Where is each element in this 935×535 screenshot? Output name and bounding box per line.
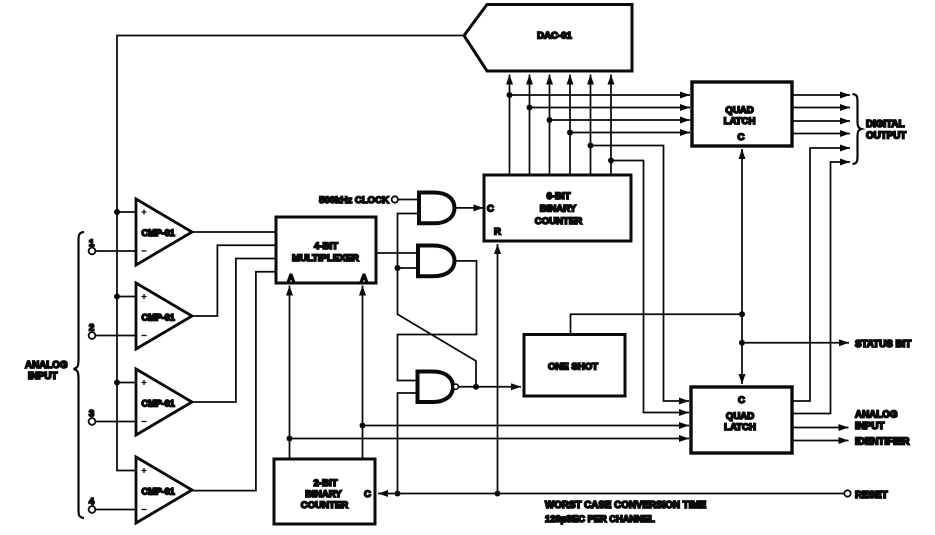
wire STATUS BIT (742, 342, 849, 344)
svg-text:RESET: RESET (855, 490, 888, 501)
node bit4 / wire to quad latch 1 (567, 130, 690, 136)
svg-text:C: C (738, 132, 745, 143)
brace ANALOG INPUT (25, 232, 84, 518)
comparator U2 CMP-01 #1 (136, 199, 192, 265)
latch U9 QUAD LATCH (bottom) (691, 387, 792, 453)
wire counter bit1 to DAC (509, 75, 511, 176)
comparator U4 CMP-01 #3 (136, 369, 192, 435)
comparator U3 CMP-01 #2 (136, 283, 192, 349)
wire MUX output to G2 input (376, 252, 418, 254)
counter U11 2-BIT BINARY COUNTER (274, 459, 375, 524)
DAC U1 DAC-01 (464, 5, 632, 72)
node bit6 / wire to quad latch 2 in2 (608, 158, 689, 413)
svg-text:CMP-01: CMP-01 (142, 313, 175, 323)
svg-text:QUAD: QUAD (726, 411, 754, 422)
wire latch2 out3 ANALOG INPUT (792, 427, 849, 429)
svg-text:BINARY: BINARY (305, 489, 342, 500)
svg-text:6-BIT: 6-BIT (547, 191, 571, 202)
svg-text:QUAD: QUAD (725, 105, 753, 116)
node STATUS BIT junction (739, 340, 745, 346)
wire C line down to latch2 C (741, 314, 743, 384)
node RESET to 6-bit counter R (495, 491, 501, 497)
wire CMP2 output to MUX in2 (192, 245, 276, 316)
node bitA branch / wire to latch2 in4 (287, 436, 690, 442)
wire latch1 out2 (792, 107, 850, 109)
wire CMP4 output to MUX in4 (192, 272, 276, 491)
svg-text:3: 3 (89, 409, 94, 420)
node RESET to G3 (395, 491, 401, 497)
wire counter bit5 to DAC (590, 75, 592, 176)
wire one shot output to C line (571, 314, 743, 334)
svg-text:INPUT: INPUT (28, 371, 57, 382)
wire counter bitA to MUX A (289, 286, 291, 460)
wire CMP1 output to MUX in1 (192, 231, 276, 233)
svg-text:COUNTER: COUNTER (301, 500, 349, 511)
svg-text:2-BIT: 2-BIT (314, 478, 338, 489)
svg-text:2: 2 (89, 323, 94, 334)
svg-text:LATCH: LATCH (724, 422, 756, 433)
svg-text:WORST CASE CONVERSION TIME: WORST CASE CONVERSION TIME (545, 500, 707, 511)
wire latch1 out4 (792, 133, 850, 135)
wire latch1 out3 (792, 120, 850, 122)
multiplexer U6 4-BIT MULTIPLEXER (276, 217, 376, 284)
node G3 output junction (473, 384, 479, 390)
svg-text:LATCH: LATCH (724, 116, 756, 127)
svg-text:DIGITAL: DIGITAL (866, 119, 904, 130)
svg-text:INPUT: INPUT (855, 421, 884, 432)
wire counter bit4 to DAC (569, 75, 571, 176)
svg-text:CMP-01: CMP-01 (142, 228, 175, 238)
terminal 4 (89, 497, 136, 513)
svg-text:4-BIT: 4-BIT (314, 241, 338, 252)
svg-text:DAC-01: DAC-01 (537, 31, 572, 42)
wire R input from RESET line (497, 244, 499, 494)
wire DAC feedback from DAC-01 vertex to comparator + inputs (117, 36, 464, 471)
node C line junction (739, 311, 745, 317)
svg-text:128µSEC PER CHANNEL: 128µSEC PER CHANNEL (545, 514, 655, 524)
wire G3 output to one shot input (476, 386, 521, 388)
node feedback to CMP3 (114, 380, 136, 386)
wire latch2 out2 up to digital output 6 (792, 162, 850, 414)
wire counter bit6 to DAC (610, 75, 612, 176)
terminal 3 (89, 409, 136, 425)
terminal 2 (89, 323, 136, 339)
comparator U5 CMP-01 #4 (136, 457, 192, 523)
svg-text:500kHz CLOCK: 500kHz CLOCK (319, 195, 389, 206)
terminal 1 (89, 238, 136, 254)
svg-text:C: C (738, 395, 745, 406)
one shot U10 (524, 335, 625, 397)
svg-text:STATUS BIT: STATUS BIT (855, 339, 911, 350)
AND gate G2 (418, 246, 455, 277)
svg-text:4: 4 (89, 497, 95, 508)
wire latch2 out1 up to digital output 5 (792, 148, 850, 401)
svg-text:C: C (487, 204, 494, 215)
terminal RESET / wire to 2-bit counter C (378, 490, 888, 501)
wire G2 output crossover to G3 input (398, 261, 477, 381)
node feedback to CMP1 (114, 209, 136, 215)
svg-text:C: C (364, 489, 371, 500)
node bit2 / wire to quad latch 1 (527, 105, 691, 111)
svg-text:OUTPUT: OUTPUT (866, 131, 906, 142)
svg-text:R: R (494, 227, 501, 238)
wire latch2 out4 IDENTIFIER (792, 440, 849, 442)
wire C line up to latch1 C (741, 149, 743, 314)
svg-text:CMP-01: CMP-01 (142, 487, 175, 497)
svg-text:MULTIPLEXER: MULTIPLEXER (292, 253, 359, 264)
node feedback to CMP2 (114, 294, 136, 300)
svg-text:BINARY: BINARY (540, 204, 577, 215)
svg-text:COUNTER: COUNTER (535, 216, 583, 227)
wire counter bit2 to DAC (529, 75, 531, 176)
wire counter bit3 to DAC (549, 75, 551, 176)
svg-text:A: A (361, 273, 368, 284)
AND gate G1 (419, 193, 455, 224)
svg-text:ONE SHOT: ONE SHOT (548, 362, 598, 373)
wire counter bitB to MUX A (362, 286, 364, 460)
node G2 lower input (395, 265, 419, 271)
counter U7 6-BIT BINARY COUNTER (484, 175, 631, 241)
wire CMP3 output to MUX in3 (192, 259, 276, 403)
wire G3 output to node (458, 386, 476, 388)
node bitB branch / wire to latch2 in3 (360, 423, 690, 429)
AND gate G3 (418, 372, 454, 403)
node bit3 / wire to quad latch 1 (547, 117, 691, 123)
svg-text:A: A (288, 273, 295, 284)
latch U8 QUAD LATCH (top) (692, 82, 792, 146)
wire G1 output to 6-bit counter C (455, 207, 484, 209)
terminal 500kHz CLOCK (319, 195, 419, 206)
svg-text:1: 1 (89, 238, 95, 249)
svg-text:ANALOG: ANALOG (25, 360, 68, 371)
svg-text:ANALOG: ANALOG (855, 410, 898, 421)
node bit1 / wire to quad latch 1 (507, 92, 691, 98)
wire latch1 out1 (792, 94, 850, 96)
bubble G3 output (453, 384, 458, 389)
svg-text:CMP-01: CMP-01 (142, 399, 175, 409)
node bit5 / wire to quad latch 2 in1 (588, 143, 690, 402)
brace DIGITAL OUTPUT (853, 94, 907, 164)
svg-text:IDENTIFIER: IDENTIFIER (855, 437, 909, 448)
wire G3 lower input from RESET line (398, 393, 418, 494)
wire G3 output feedback to G1/G2 inputs (diagonal) (398, 214, 477, 387)
